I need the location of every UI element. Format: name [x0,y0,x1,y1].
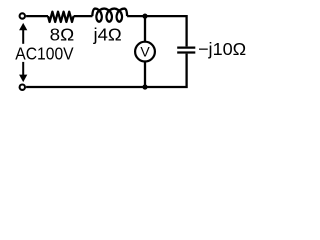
svg-text:−j10Ω: −j10Ω [198,39,246,59]
svg-text:V: V [140,43,150,59]
svg-text:AC100V: AC100V [15,43,74,63]
svg-text:8Ω: 8Ω [50,25,75,45]
svg-text:j4Ω: j4Ω [92,25,121,45]
